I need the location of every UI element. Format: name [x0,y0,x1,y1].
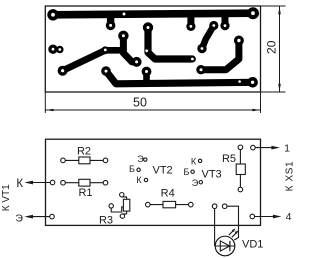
svg-text:1: 1 [284,142,290,154]
svg-text:Э: Э [137,154,144,164]
svg-text:50: 50 [133,96,147,110]
svg-text:VT2: VT2 [153,164,173,176]
svg-text:4: 4 [286,211,292,223]
svg-text:К XS1: К XS1 [285,161,296,192]
svg-text:К: К [191,157,197,167]
svg-text:Б: Б [129,164,135,174]
svg-text:Э: Э [192,178,199,188]
svg-text:R2: R2 [77,146,91,158]
svg-text:К: К [16,178,23,190]
svg-text:К: К [136,175,142,185]
svg-text:R3: R3 [99,214,113,226]
svg-text:R5: R5 [222,153,236,165]
svg-text:R1: R1 [78,187,92,199]
svg-text:20: 20 [265,40,279,54]
svg-text:VD1: VD1 [242,239,263,251]
svg-text:VT3: VT3 [202,169,222,181]
svg-text:К VT1: К VT1 [1,184,12,211]
svg-text:R4: R4 [161,188,175,200]
svg-text:Э: Э [15,212,23,224]
svg-text:Б: Б [184,167,190,177]
